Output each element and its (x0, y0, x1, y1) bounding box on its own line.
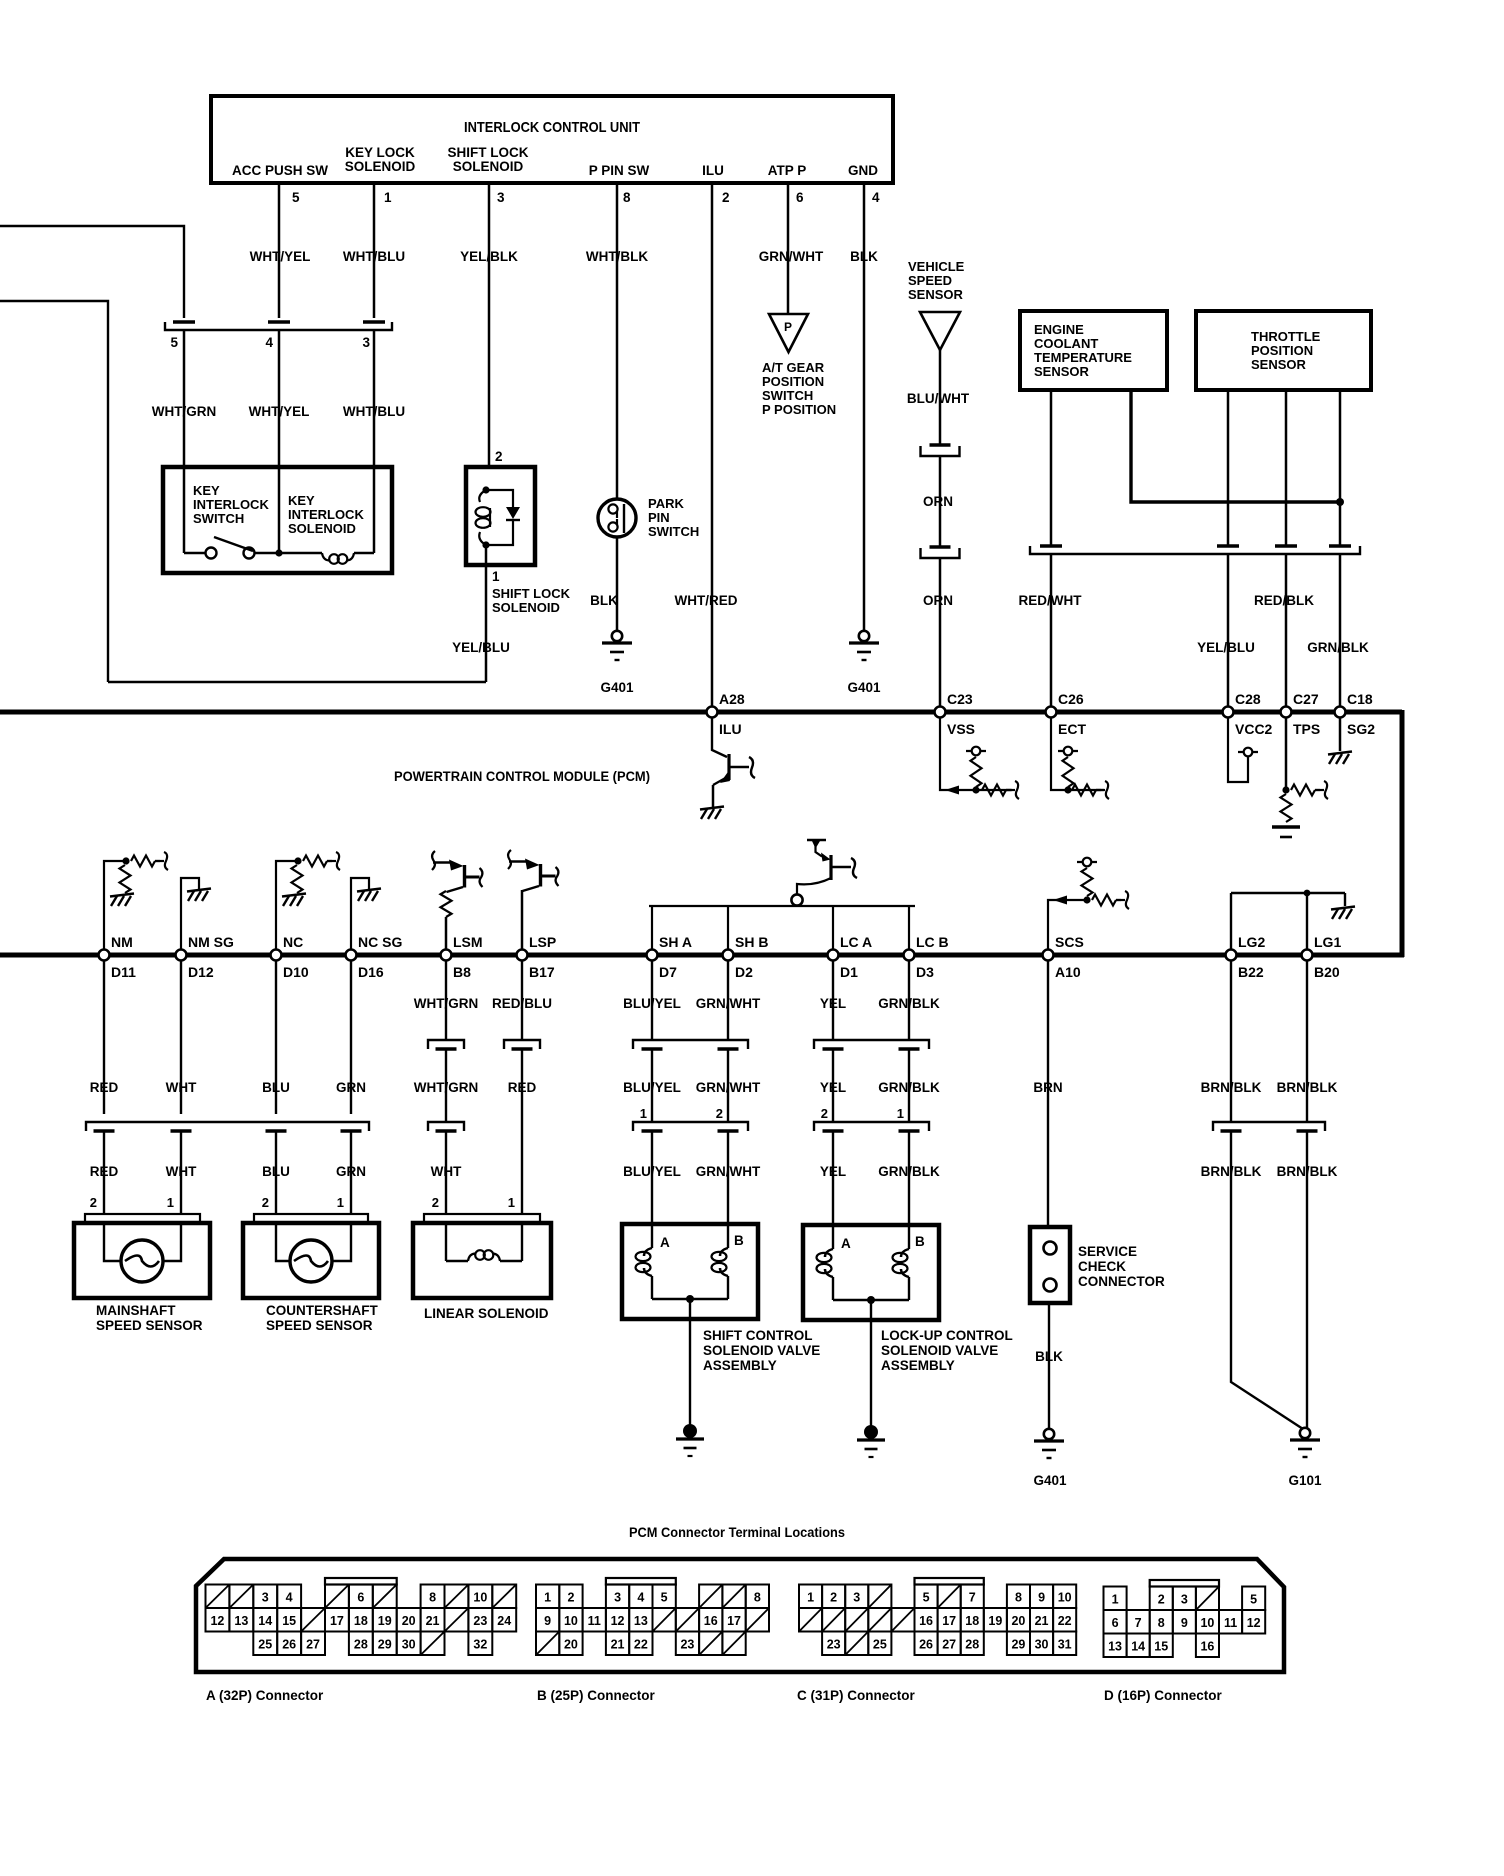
svg-text:ECT: ECT (1058, 721, 1086, 737)
wire WHT/GRN to key interlock switch (183, 330, 186, 467)
svg-text:14: 14 (1131, 1639, 1145, 1653)
svg-text:16: 16 (704, 1614, 718, 1628)
svg-text:GRN/WHT: GRN/WHT (696, 1164, 761, 1179)
svg-text:18: 18 (354, 1614, 368, 1628)
svg-text:BLU/YEL: BLU/YEL (623, 1080, 681, 1095)
svg-text:ORN: ORN (923, 494, 953, 509)
svg-text:WHT: WHT (166, 1164, 197, 1179)
svg-text:ATP P: ATP P (768, 163, 807, 178)
svg-text:SWITCH: SWITCH (762, 388, 813, 403)
PCM lower bus line (0, 953, 1404, 958)
node A28 ILU (707, 707, 718, 718)
inline connector LSP (504, 1040, 540, 1049)
wire VSS ORN (939, 456, 942, 546)
park pin switch (598, 499, 636, 537)
svg-text:G401: G401 (847, 680, 881, 695)
svg-text:14: 14 (258, 1614, 272, 1628)
svg-text:12: 12 (1247, 1616, 1261, 1630)
svg-text:RED/WHT: RED/WHT (1019, 593, 1083, 608)
svg-text:6: 6 (1112, 1616, 1119, 1630)
shift lock solenoid top junction (482, 486, 489, 493)
svg-text:20: 20 (402, 1614, 416, 1628)
ground stub NM SG (181, 878, 199, 950)
wire RED/BLK to C27 (1285, 554, 1288, 712)
node B17 LSP (517, 950, 528, 961)
wire LC B GRN/BLK (908, 960, 910, 1040)
wire TPS SG2 (1339, 390, 1342, 546)
ground G401 service check (1044, 1429, 1054, 1439)
svg-text:25: 25 (258, 1637, 272, 1651)
inline connector LSM lower (428, 1122, 464, 1131)
svg-text:WHT/YEL: WHT/YEL (250, 249, 311, 264)
svg-text:BLU: BLU (262, 1164, 290, 1179)
svg-text:3: 3 (497, 190, 505, 205)
wire LC A YEL (832, 960, 834, 1040)
svg-text:GRN/BLK: GRN/BLK (878, 1080, 940, 1095)
svg-text:19: 19 (988, 1614, 1002, 1628)
svg-text:7: 7 (969, 1590, 976, 1604)
wire SH A BLU/YEL (651, 960, 653, 1040)
wire GRN/BLK to C18 (1339, 554, 1342, 712)
wire ICU pin6 ATP P (787, 183, 790, 314)
node D1 LC A (828, 950, 839, 961)
svg-text:5: 5 (292, 190, 300, 205)
svg-text:21: 21 (1035, 1614, 1049, 1628)
svg-text:24: 24 (497, 1614, 511, 1628)
svg-text:GRN/WHT: GRN/WHT (759, 249, 824, 264)
svg-text:6: 6 (357, 1590, 364, 1604)
svg-text:YEL: YEL (820, 1080, 846, 1095)
svg-text:LOCK-UP CONTROL: LOCK-UP CONTROL (881, 1328, 1013, 1343)
shift control solenoid valve assembly (622, 1224, 758, 1319)
node C27 TPS (1281, 707, 1292, 718)
svg-text:NC SG: NC SG (358, 934, 402, 950)
wire SCS BRN (1047, 960, 1049, 1227)
svg-text:11: 11 (1224, 1616, 1237, 1630)
svg-text:SENSOR: SENSOR (1034, 364, 1090, 379)
wire VSS BLU/WHT (939, 350, 942, 444)
wire ICU pin5 ACC PUSH SW (278, 183, 281, 318)
svg-text:3: 3 (614, 1590, 621, 1604)
engine coolant temperature sensor box (1020, 311, 1167, 390)
wire WHT/YEL to key interlock switch (278, 330, 281, 467)
svg-text:WHT/GRN: WHT/GRN (152, 404, 217, 419)
svg-text:26: 26 (919, 1637, 933, 1651)
svg-text:D7: D7 (659, 964, 677, 980)
svg-text:19: 19 (378, 1614, 392, 1628)
svg-text:2: 2 (432, 1195, 439, 1210)
wire ECT ground thick (1131, 390, 1340, 502)
svg-text:10: 10 (473, 1590, 487, 1604)
junction ECT ground to SG2 (1336, 498, 1344, 506)
shift lock solenoid coil (479, 490, 486, 502)
svg-text:SOLENOID: SOLENOID (453, 159, 524, 174)
node C23 VSS (935, 707, 946, 718)
svg-text:27: 27 (942, 1637, 956, 1651)
svg-text:5: 5 (170, 335, 178, 350)
throttle position sensor box (1196, 311, 1371, 390)
wire ICU pin3 SHIFT LOCK SOLENOID (488, 183, 491, 467)
svg-text:1: 1 (384, 190, 392, 205)
svg-text:GRN/BLK: GRN/BLK (878, 1164, 940, 1179)
svg-text:YEL: YEL (820, 996, 846, 1011)
node D3 LC B (904, 950, 915, 961)
svg-text:BLK: BLK (850, 249, 878, 264)
svg-text:1: 1 (640, 1106, 647, 1121)
svg-text:G101: G101 (1288, 1473, 1322, 1488)
svg-text:10: 10 (564, 1614, 578, 1628)
inline connector bracket speed sensors (86, 1122, 369, 1131)
svg-text:23: 23 (680, 1637, 694, 1651)
svg-text:4: 4 (637, 1590, 644, 1604)
resistor network NC (276, 861, 298, 950)
svg-text:15: 15 (1154, 1639, 1168, 1653)
svg-text:3: 3 (362, 335, 370, 350)
svg-text:D12: D12 (188, 964, 214, 980)
svg-text:SWITCH: SWITCH (193, 511, 244, 526)
svg-text:2: 2 (262, 1195, 269, 1210)
node D7 SH A (647, 950, 658, 961)
svg-text:D11: D11 (111, 964, 136, 980)
svg-text:1: 1 (337, 1195, 344, 1210)
shift lock solenoid diode (486, 490, 513, 507)
svg-text:B20: B20 (1314, 964, 1340, 980)
wire feed from left at y226 (0, 226, 184, 318)
wire NM SG WHT (180, 960, 182, 1114)
svg-text:LC B: LC B (916, 934, 949, 950)
transistor ILU driver (712, 717, 727, 757)
svg-text:BLU/YEL: BLU/YEL (623, 996, 681, 1011)
wire ECT signal (1050, 390, 1053, 546)
wire service check BLK (1048, 1303, 1050, 1429)
svg-text:23: 23 (473, 1614, 487, 1628)
svg-text:4: 4 (265, 335, 273, 350)
svg-text:GRN/BLK: GRN/BLK (878, 996, 940, 1011)
svg-text:2: 2 (90, 1195, 97, 1210)
resistor network ECT (1051, 717, 1104, 790)
wire YEL/BLU to C28 (1227, 554, 1230, 712)
svg-text:SENSOR: SENSOR (908, 287, 964, 302)
svg-text:POWERTRAIN CONTROL MODULE (PCM: POWERTRAIN CONTROL MODULE (PCM) (394, 769, 650, 784)
svg-text:SOLENOID: SOLENOID (288, 521, 356, 536)
svg-text:C23: C23 (947, 691, 973, 707)
svg-text:SPEED: SPEED (908, 273, 952, 288)
svg-text:RED: RED (90, 1080, 119, 1095)
svg-text:SHIFT LOCK: SHIFT LOCK (492, 586, 571, 601)
lock-up control solenoid valve assembly (803, 1225, 939, 1320)
key interlock solenoid coil (302, 552, 322, 554)
svg-text:VCC2: VCC2 (1235, 721, 1273, 737)
resistor network VSS (940, 717, 1012, 790)
svg-text:YEL/BLU: YEL/BLU (1197, 640, 1255, 655)
svg-text:WHT: WHT (166, 1080, 197, 1095)
node C28 VCC2 (1223, 707, 1234, 718)
svg-text:16: 16 (919, 1614, 933, 1628)
svg-text:ILU: ILU (702, 163, 724, 178)
svg-text:1: 1 (807, 1590, 814, 1604)
svg-text:6: 6 (796, 190, 804, 205)
svg-text:SH A: SH A (659, 934, 692, 950)
svg-text:2: 2 (830, 1590, 837, 1604)
svg-text:12: 12 (611, 1614, 625, 1628)
transistor LSM driver with resistor (445, 917, 448, 950)
node A10 SCS (1043, 950, 1054, 961)
resistor network SCS (1048, 900, 1087, 950)
svg-text:B (25P) Connector: B (25P) Connector (537, 1688, 656, 1703)
ground G401 park pin switch (612, 631, 622, 641)
svg-text:2: 2 (722, 190, 730, 205)
svg-text:1: 1 (167, 1195, 174, 1210)
svg-text:INTERLOCK: INTERLOCK (288, 507, 364, 522)
svg-text:23: 23 (827, 1637, 841, 1651)
svg-text:C26: C26 (1058, 691, 1084, 707)
svg-text:3: 3 (1181, 1592, 1188, 1606)
node D12 NM SG (176, 950, 187, 961)
svg-text:WHT/RED: WHT/RED (675, 593, 738, 608)
svg-text:KEY LOCK: KEY LOCK (345, 145, 415, 160)
svg-text:5: 5 (923, 1590, 930, 1604)
svg-text:D10: D10 (283, 964, 309, 980)
svg-text:GRN: GRN (336, 1080, 366, 1095)
connector D 16P (1104, 1587, 1127, 1611)
svg-text:1: 1 (492, 569, 500, 584)
PCM upper bus line (0, 710, 1402, 715)
ground lock-up control (864, 1425, 878, 1439)
svg-text:3: 3 (853, 1590, 860, 1604)
svg-text:SH B: SH B (735, 934, 768, 950)
svg-text:4: 4 (286, 1590, 293, 1604)
svg-text:INTERLOCK CONTROL UNIT: INTERLOCK CONTROL UNIT (464, 119, 640, 136)
svg-text:2: 2 (821, 1106, 828, 1121)
wire WHT/BLU to key interlock solenoid (373, 330, 376, 467)
svg-text:C (31P) Connector: C (31P) Connector (797, 1688, 916, 1703)
svg-text:PARK: PARK (648, 496, 684, 511)
wire LG1 BRN/BLK (1306, 960, 1308, 1122)
interlock control unit box (211, 96, 893, 183)
svg-text:LINEAR SOLENOID: LINEAR SOLENOID (424, 1306, 549, 1321)
svg-text:G401: G401 (600, 680, 634, 695)
svg-text:WHT/YEL: WHT/YEL (249, 404, 310, 419)
svg-text:SERVICE: SERVICE (1078, 1244, 1137, 1259)
svg-text:2: 2 (716, 1106, 723, 1121)
svg-text:2: 2 (567, 1590, 574, 1604)
svg-text:D (16P) Connector: D (16P) Connector (1104, 1688, 1223, 1703)
wire YEL/BLU return to left (108, 681, 486, 684)
svg-text:3: 3 (262, 1590, 269, 1604)
svg-text:KEY: KEY (288, 493, 315, 508)
svg-text:COUNTERSHAFT: COUNTERSHAFT (266, 1303, 378, 1318)
wires speed sensors to boxes (103, 1131, 105, 1214)
svg-text:POSITION: POSITION (1251, 343, 1313, 358)
wire park pin switch to ground (616, 537, 619, 631)
svg-text:D1: D1 (840, 964, 858, 980)
connector A 32P (206, 1585, 230, 1609)
svg-text:SG2: SG2 (1347, 721, 1375, 737)
inline connector bracket sensors (1030, 546, 1360, 554)
svg-text:A: A (660, 1235, 670, 1250)
svg-text:LG2: LG2 (1238, 934, 1265, 950)
svg-text:29: 29 (378, 1637, 392, 1651)
svg-text:LSM: LSM (453, 934, 483, 950)
shift lock solenoid bottom junction (482, 541, 489, 548)
wire LSM WHT/GRN (445, 960, 447, 1040)
svg-text:C28: C28 (1235, 691, 1261, 707)
svg-text:A10: A10 (1055, 964, 1081, 980)
svg-text:RED/BLU: RED/BLU (492, 996, 552, 1011)
wire shift control to ground (689, 1299, 691, 1426)
svg-text:PIN: PIN (648, 510, 670, 525)
key interlock switch contacts (206, 548, 217, 559)
linear solenoid (424, 1214, 540, 1223)
svg-text:SOLENOID: SOLENOID (492, 600, 560, 615)
node D11 NM (99, 950, 110, 961)
svg-text:YEL: YEL (820, 1164, 846, 1179)
svg-text:ASSEMBLY: ASSEMBLY (881, 1358, 955, 1373)
svg-text:32: 32 (473, 1637, 487, 1651)
node C18 SG2 (1335, 707, 1346, 718)
svg-text:30: 30 (402, 1637, 416, 1651)
svg-text:NM: NM (111, 934, 133, 950)
inline connector bracket pins 5 4 3 (165, 322, 392, 330)
wire NM RED (103, 960, 105, 1114)
svg-text:BRN/BLK: BRN/BLK (1201, 1080, 1262, 1095)
svg-text:CONNECTOR: CONNECTOR (1078, 1274, 1165, 1289)
svg-text:1: 1 (1112, 1592, 1119, 1606)
svg-text:BLU: BLU (262, 1080, 290, 1095)
svg-text:22: 22 (1058, 1614, 1072, 1628)
svg-text:GRN/BLK: GRN/BLK (1307, 640, 1369, 655)
resistor network NM (104, 861, 126, 950)
wire TPS VCC2 (1227, 390, 1230, 546)
svg-text:29: 29 (1011, 1637, 1025, 1651)
svg-text:B22: B22 (1238, 964, 1264, 980)
ground G401 for ICU GND (859, 631, 869, 641)
svg-text:MAINSHAFT: MAINSHAFT (96, 1303, 176, 1318)
svg-text:22: 22 (634, 1637, 648, 1651)
wire LG2 to G101 (1231, 1131, 1303, 1429)
wire inside key box WHT/BLU (373, 467, 376, 553)
svg-text:17: 17 (330, 1614, 344, 1628)
inline connector VSS lower (930, 545, 951, 548)
svg-text:G401: G401 (1033, 1473, 1067, 1488)
svg-text:SPEED SENSOR: SPEED SENSOR (96, 1318, 203, 1333)
svg-text:ILU: ILU (719, 721, 742, 737)
svg-text:GRN/WHT: GRN/WHT (696, 1080, 761, 1095)
svg-text:B: B (734, 1233, 744, 1248)
node D2 SH B (723, 950, 734, 961)
svg-text:9: 9 (1181, 1616, 1188, 1630)
svg-text:YEL/BLK: YEL/BLK (460, 249, 518, 264)
svg-text:SENSOR: SENSOR (1251, 357, 1307, 372)
svg-text:5: 5 (1250, 1592, 1257, 1606)
wire NC SG GRN (350, 960, 352, 1114)
svg-text:A: A (841, 1236, 851, 1251)
wire NC BLU (275, 960, 277, 1114)
svg-text:20: 20 (564, 1637, 578, 1651)
key interlock switch and solenoid box (163, 467, 392, 573)
svg-text:1: 1 (897, 1106, 904, 1121)
svg-text:B8: B8 (453, 964, 471, 980)
svg-text:9: 9 (1038, 1590, 1045, 1604)
svg-text:GRN/WHT: GRN/WHT (696, 996, 761, 1011)
wire ICU pin2 ILU (711, 183, 714, 712)
svg-text:ENGINE: ENGINE (1034, 322, 1084, 337)
service check connector (1030, 1227, 1070, 1303)
ground shift control (683, 1424, 697, 1438)
junction key switch to solenoid (275, 549, 282, 556)
svg-text:LC A: LC A (840, 934, 872, 950)
node B8 LSM (441, 950, 452, 961)
svg-text:THROTTLE: THROTTLE (1251, 329, 1321, 344)
svg-text:A (32P) Connector: A (32P) Connector (206, 1688, 324, 1703)
svg-text:26: 26 (282, 1637, 296, 1651)
svg-text:RED/BLK: RED/BLK (1254, 593, 1314, 608)
svg-text:8: 8 (1158, 1616, 1165, 1630)
svg-text:SOLENOID: SOLENOID (345, 159, 416, 174)
svg-text:ACC PUSH SW: ACC PUSH SW (232, 163, 328, 178)
inline connector SH pair lower (633, 1122, 748, 1131)
svg-text:TEMPERATURE: TEMPERATURE (1034, 350, 1132, 365)
svg-text:SOLENOID VALVE: SOLENOID VALVE (703, 1343, 820, 1358)
VCC2 reference tap (1228, 717, 1248, 782)
svg-text:P: P (784, 320, 792, 334)
svg-text:9: 9 (544, 1614, 551, 1628)
svg-text:GND: GND (848, 163, 878, 178)
svg-text:BLU/WHT: BLU/WHT (907, 391, 970, 406)
svg-text:LSP: LSP (529, 934, 556, 950)
transistor LSP driver (521, 890, 524, 950)
svg-text:D3: D3 (916, 964, 934, 980)
svg-text:8: 8 (1015, 1590, 1022, 1604)
svg-text:B17: B17 (529, 964, 555, 980)
countershaft speed sensor (254, 1214, 368, 1223)
svg-text:SHIFT LOCK: SHIFT LOCK (448, 145, 529, 160)
resistor network TPS (1285, 717, 1288, 790)
ground stub NC SG (351, 878, 369, 950)
svg-text:YEL/BLU: YEL/BLU (452, 640, 510, 655)
connector table outline (196, 1559, 1284, 1672)
svg-text:D2: D2 (735, 964, 753, 980)
svg-text:WHT: WHT (431, 1164, 462, 1179)
node D16 NC SG (346, 950, 357, 961)
svg-text:BRN: BRN (1033, 1080, 1062, 1095)
inline connector VSS upper (930, 443, 951, 446)
svg-text:12: 12 (210, 1614, 224, 1628)
svg-text:SOLENOID VALVE: SOLENOID VALVE (881, 1343, 998, 1358)
svg-text:30: 30 (1035, 1637, 1049, 1651)
ground G101 (1300, 1428, 1310, 1438)
svg-text:VEHICLE: VEHICLE (908, 259, 965, 274)
svg-text:13: 13 (1108, 1639, 1122, 1653)
svg-text:13: 13 (634, 1614, 648, 1628)
svg-text:RED: RED (90, 1164, 119, 1179)
svg-text:15: 15 (282, 1614, 296, 1628)
connector C 31P (799, 1585, 822, 1609)
svg-text:POSITION: POSITION (762, 374, 824, 389)
svg-text:BLU/YEL: BLU/YEL (623, 1164, 681, 1179)
svg-text:28: 28 (965, 1637, 979, 1651)
wire LG1 to G101 (1306, 1131, 1308, 1428)
svg-text:28: 28 (354, 1637, 368, 1651)
svg-text:11: 11 (588, 1614, 601, 1628)
svg-text:1: 1 (508, 1195, 515, 1210)
svg-text:A28: A28 (719, 691, 745, 707)
wire feed from left at y301 (0, 301, 108, 682)
svg-text:4: 4 (872, 190, 880, 205)
svg-text:SHIFT CONTROL: SHIFT CONTROL (703, 1328, 813, 1343)
svg-text:18: 18 (965, 1614, 979, 1628)
wire shift lock solenoid pin1 (485, 545, 488, 682)
